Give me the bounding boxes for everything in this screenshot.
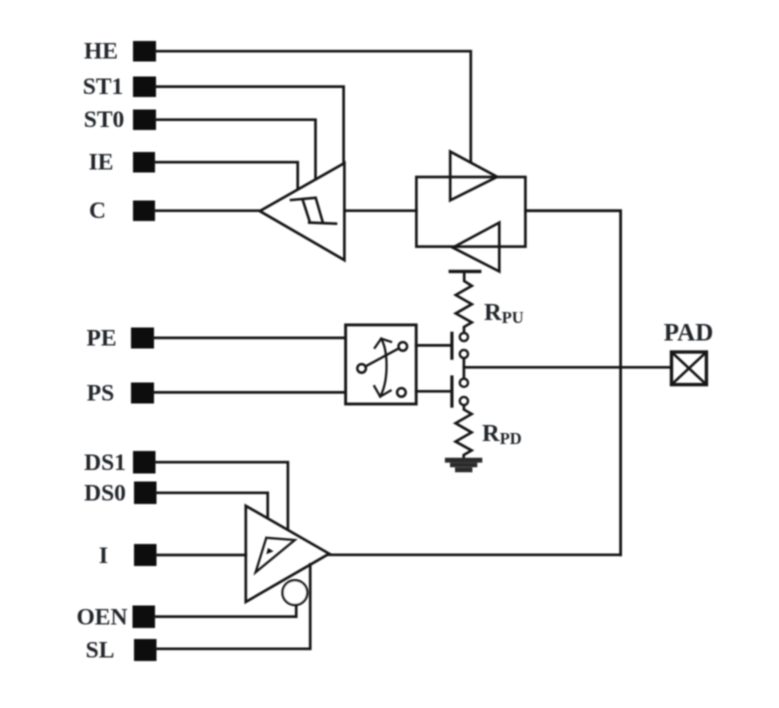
wire SL bbox=[157, 564, 311, 649]
pin C square bbox=[133, 201, 155, 222]
wire PE bbox=[154, 337, 346, 340]
pin PS square bbox=[131, 383, 154, 404]
pin PE square bbox=[131, 328, 154, 349]
OEN enable bubble bbox=[283, 580, 308, 605]
pin IE square bbox=[133, 152, 155, 173]
PAD box bbox=[672, 352, 707, 385]
svg-text:OEN: OEN bbox=[77, 605, 128, 631]
wire pad line bbox=[464, 366, 672, 369]
wire HE bbox=[156, 51, 471, 161]
buffer U2b (points left, on bottom edge) bbox=[453, 223, 500, 272]
resistor RPU bbox=[456, 273, 472, 333]
pin ST1 square bbox=[133, 77, 156, 98]
switch SW2 contact circles bbox=[460, 379, 468, 387]
wire PS bbox=[154, 391, 346, 394]
svg-text:DS0: DS0 bbox=[84, 481, 126, 507]
output driver U4 (tri-state, points right) bbox=[246, 506, 329, 602]
U3 switch blade bbox=[366, 348, 399, 366]
wire switch1 gate drive bbox=[416, 344, 451, 347]
wire driver output bbox=[329, 553, 621, 556]
wire DS0 bbox=[157, 493, 268, 518]
svg-text:PE: PE bbox=[86, 326, 116, 352]
switch SW1 contact circles bbox=[460, 333, 468, 341]
svg-text:I: I bbox=[99, 543, 108, 569]
U3 left contact circle bbox=[357, 364, 366, 373]
PAD X mark bbox=[672, 352, 707, 385]
svg-text:ST0: ST0 bbox=[84, 107, 125, 133]
svg-text:ST1: ST1 bbox=[83, 74, 124, 100]
buffer U2a (points right, on top edge) bbox=[450, 152, 497, 201]
wire I bbox=[157, 554, 246, 557]
VDD bar (top of RPU) bbox=[450, 270, 479, 273]
U3 top-right contact circle bbox=[399, 342, 408, 351]
svg-text:RPD: RPD bbox=[482, 420, 522, 448]
svg-text:IE: IE bbox=[89, 150, 114, 176]
wire OEN bbox=[155, 605, 296, 616]
wire schmitt output bbox=[344, 209, 416, 212]
pin DS1 square bbox=[133, 451, 156, 474]
pin SL square bbox=[134, 639, 157, 661]
pin I square bbox=[134, 544, 157, 566]
pin ST0 square bbox=[133, 110, 156, 131]
svg-text:HE: HE bbox=[84, 39, 118, 65]
ground symbol bbox=[447, 460, 480, 470]
U3 toggle arc with arrowheads bbox=[380, 339, 386, 397]
wire DS1 bbox=[156, 462, 288, 529]
U3 bottom-right contact circle bbox=[397, 388, 406, 397]
wire buffer output to trunk bbox=[525, 211, 620, 555]
svg-text:C: C bbox=[89, 198, 106, 224]
schmitt trigger U1 (input receiver, points left) bbox=[260, 163, 345, 260]
wire C bbox=[155, 209, 261, 212]
svg-text:RPU: RPU bbox=[484, 299, 524, 327]
svg-text:PAD: PAD bbox=[664, 320, 714, 347]
wire ST0 bbox=[156, 120, 316, 179]
svg-text:DS1: DS1 bbox=[84, 450, 126, 476]
wire switch2 gate drive bbox=[416, 390, 451, 393]
switch SW1 gate bar bbox=[450, 333, 453, 358]
slew-rate symbol inside U4 bbox=[256, 538, 295, 573]
svg-text:PS: PS bbox=[87, 381, 114, 407]
pin HE square bbox=[133, 41, 156, 62]
pin DS0 square bbox=[134, 482, 157, 505]
switch SW2 gate bar bbox=[450, 377, 453, 406]
wire SW1 to pad node bbox=[463, 358, 466, 378]
wire IE bbox=[155, 162, 298, 188]
svg-text:SL: SL bbox=[86, 638, 115, 664]
wire ST1 bbox=[156, 87, 344, 164]
pin OEN square bbox=[133, 606, 156, 629]
switch control box U3 (PE/PS) bbox=[346, 325, 417, 404]
resistor RPD bbox=[456, 405, 472, 458]
hysteresis symbol bbox=[291, 198, 336, 224]
buffer box U2 bbox=[416, 177, 525, 247]
